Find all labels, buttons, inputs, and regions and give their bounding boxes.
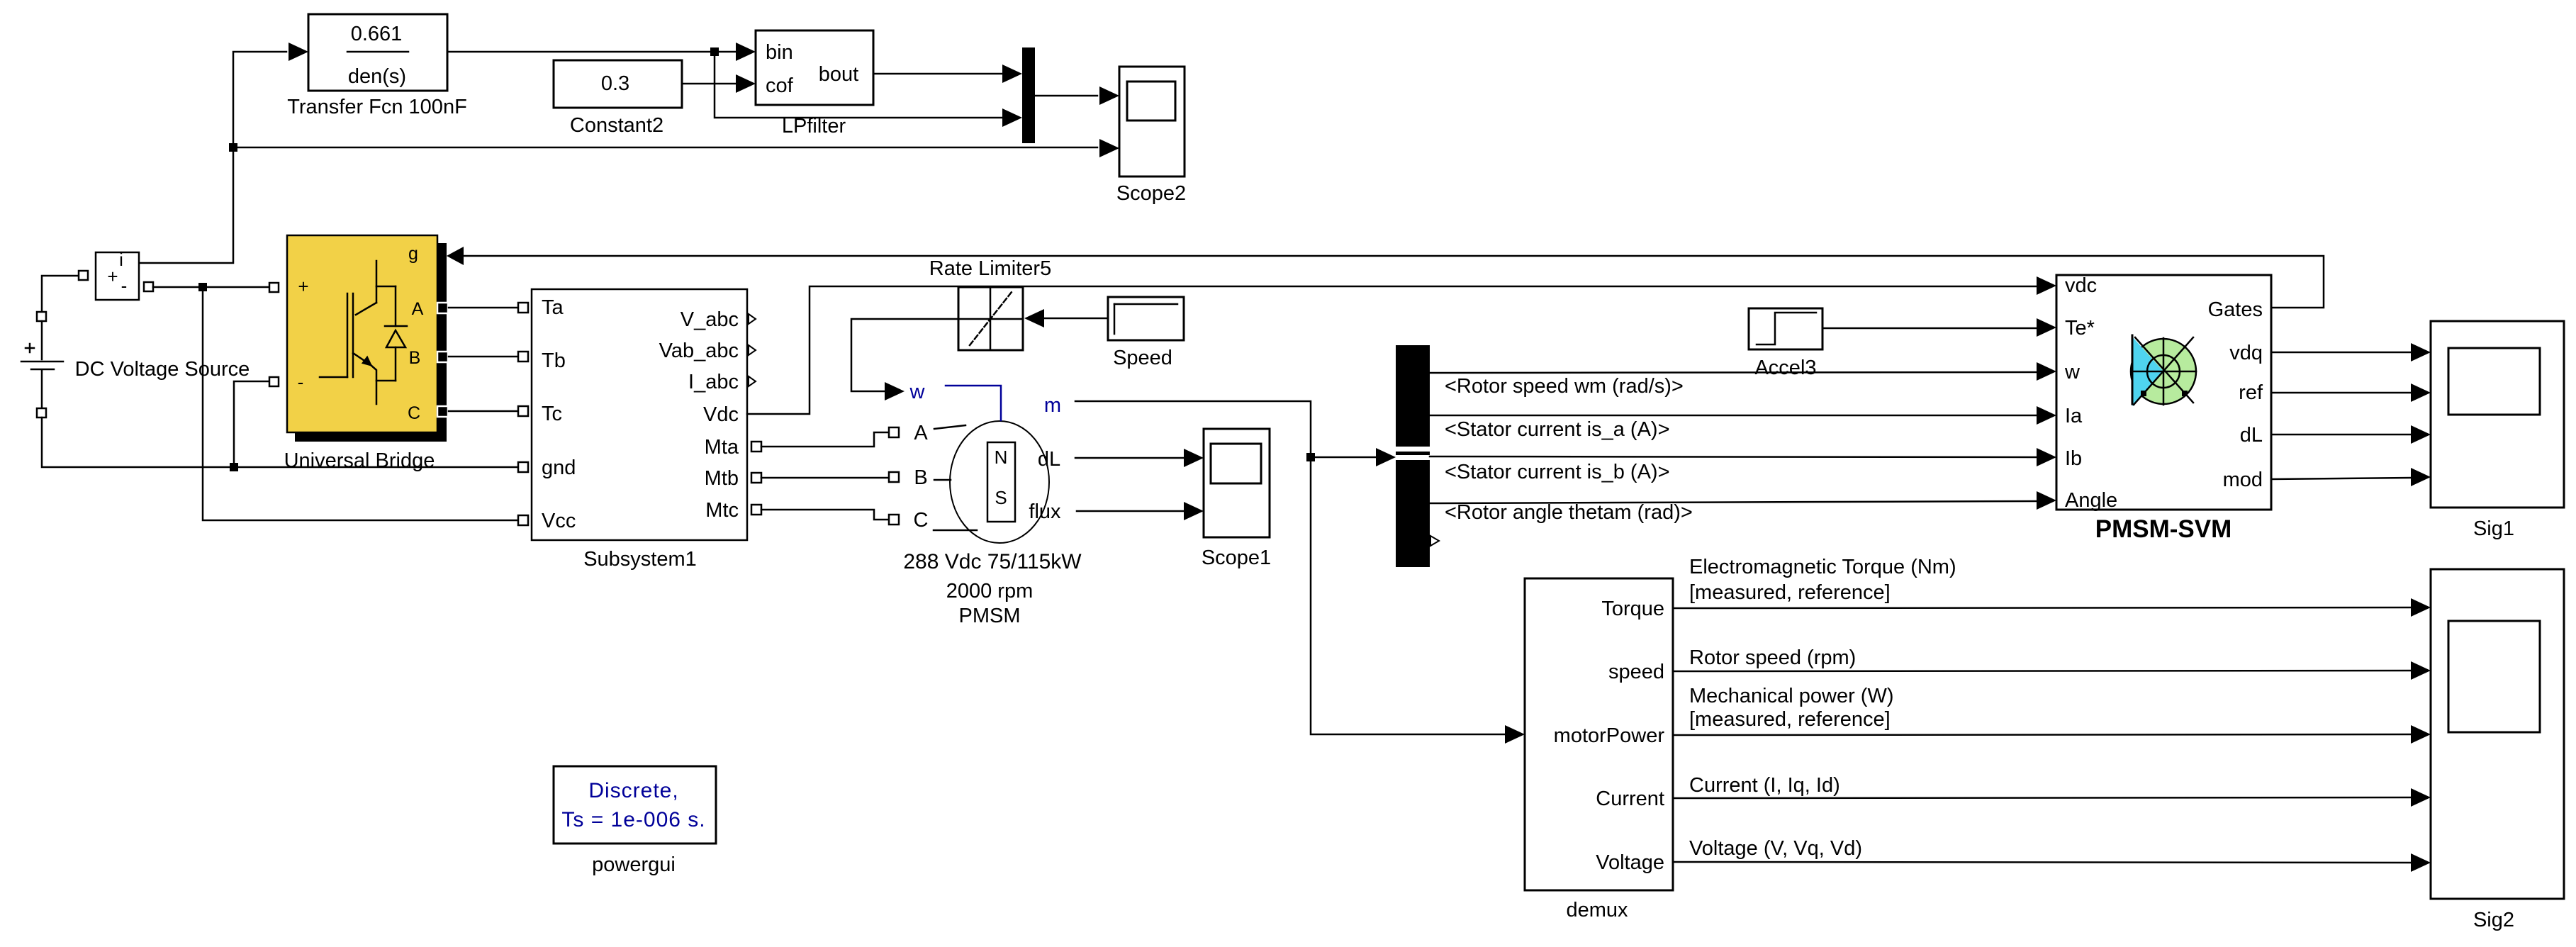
wire i-output from current sensor up to Transfer Fcn input [139,52,286,263]
svg-text:ref: ref [2239,381,2263,404]
arrow into Transfer Fcn [289,43,308,61]
svg-text:Voltage: Voltage [1596,851,1664,874]
wire mux output to Scope2 [1035,95,1097,97]
svg-text:demux: demux [1566,899,1628,921]
port square Subsystem1 Mtc output [751,505,761,515]
wire current sensor to bridge plus [153,286,269,288]
svg-text:Ib: Ib [2065,447,2082,470]
wire LPfilter bout to mux upper input [873,73,1002,75]
wire Rate Limiter5 output to motor w input [851,319,958,391]
svg-text:flux: flux [1029,500,1061,523]
junction on vertical feed at (329,208) [229,143,237,152]
arrow into Scope2 upper input [1099,86,1119,105]
block Current Measurement [96,249,139,300]
arrow into Sig2 in1 [2411,598,2431,617]
svg-text:gnd: gnd [542,456,576,479]
stub motor C [934,529,977,532]
arrow into bus selector [1376,448,1396,466]
block Rate Limiter5 [958,287,1023,350]
port square Subsystem1 Ta [518,303,528,313]
wire DC source plus to current sensor [42,276,79,317]
arrow into Scope1 input2 [1184,502,1204,520]
svg-text:[measured, reference]: [measured, reference] [1689,708,1891,731]
port square Subsystem1 Tb [518,352,528,362]
wire Mtb to motor B [761,477,889,479]
svg-text:B: B [409,348,421,368]
wire motor dL to Scope1 [1075,457,1184,459]
block Transfer Fcn 100nF [308,14,447,91]
svg-text:Speed: Speed [1113,347,1172,369]
wire demux Voltage to Sig2 [1673,862,2411,863]
wire gates feedback from PMSM-SVM to bridge g input [462,256,2324,308]
port square Subsystem1 Vcc [518,515,528,525]
arrow into mux lower input [1002,108,1022,127]
arrow into Sig2 in3 [2411,725,2431,744]
svg-text:0.3: 0.3 [601,72,629,95]
svg-text:i: i [119,249,123,270]
wire DC source minus to gnd rail [42,418,518,467]
svg-text:Scope1: Scope1 [1202,547,1271,569]
port square DC source plus [37,312,46,321]
svg-text:C: C [914,509,929,532]
arrow into Scope2 lower input [1099,139,1119,157]
svg-text:S: S [995,487,1007,508]
port chevron V_abc [749,314,756,324]
wire Transfer Fcn output to LPfilter bin [447,51,735,53]
arrow into motor w [885,382,905,400]
svg-text:2000 rpm: 2000 rpm [946,580,1034,603]
port chevron Vab_abc [749,345,756,355]
svg-text:Tb: Tb [542,349,566,372]
arrow into Sig1 in2 [2411,383,2431,402]
wire Speed to Rate Limiter5 input [1044,318,1108,320]
svg-text:vdq: vdq [2229,342,2263,364]
arrow into PMSM-SVM Te* [2037,318,2056,337]
arrow into PMSM-SVM w [2037,362,2056,381]
svg-text:Mta: Mta [705,436,739,459]
arrow into Sig1 in3 [2411,425,2431,444]
svg-text:<Rotor speed wm (rad/s)>: <Rotor speed wm (rad/s)> [1445,375,1684,398]
svg-text:-: - [298,371,304,393]
block powergui [554,766,716,844]
svg-text:288 Vdc 75/115kW: 288 Vdc 75/115kW [903,550,1082,573]
svg-text:powergui: powergui [592,853,676,876]
block demux [1525,578,1673,890]
wire bridge minus down to gnd rail [234,381,269,467]
wire motor m output to bus selector and demux [1075,401,1505,734]
svg-text:Transfer Fcn 100nF: Transfer Fcn 100nF [287,96,467,118]
junction at (286,405) [198,283,207,291]
port square motor A [889,427,899,437]
svg-text:0.661: 0.661 [351,23,403,45]
svg-text:vdc: vdc [2065,274,2097,297]
svg-text:bout: bout [819,63,858,86]
wire Accel3 to PMSM-SVM Te* [1822,327,2037,330]
svg-text:<Rotor angle thetam (rad)>: <Rotor angle thetam (rad)> [1445,501,1693,524]
port square bridge plus [269,283,279,292]
svg-text:Sig1: Sig1 [2473,517,2514,540]
block Universal Bridge shadow [295,243,447,442]
port square Subsystem1 gnd [518,462,528,472]
block Universal Bridge [287,235,437,432]
wire Mta to motor A [761,432,889,447]
wire demux Torque to Sig2 [1673,607,2411,608]
wire long feed y=208 from junction to Scope2 lower input [233,147,1097,149]
svg-text:Mtc: Mtc [705,499,739,522]
svg-text:-: - [121,275,128,296]
arrow into Rate Limiter5 (pointing left) [1024,309,1044,327]
port chevron bus selector bottom [1430,536,1439,546]
svg-text:Vab_abc: Vab_abc [659,340,739,362]
svg-text:w: w [909,381,926,403]
svg-text:Rate Limiter5: Rate Limiter5 [929,257,1051,280]
svg-text:+: + [107,266,118,287]
wire demux Current to Sig2 [1673,797,2411,798]
svg-text:DC Voltage Source: DC Voltage Source [75,358,250,381]
svg-text:Subsystem1: Subsystem1 [583,548,697,571]
svg-text:+: + [298,276,308,297]
scope Sig1 [2431,321,2564,508]
block Accel3 [1749,308,1822,349]
stub motor A [934,425,965,429]
port square DC source minus [37,408,46,418]
wire Vdc output to PMSM-SVM vdc input [747,286,2037,414]
block PMSM-SVM [2056,274,2271,512]
wire demux motorPower to Sig2 [1673,734,2411,735]
arrow into PMSM-SVM Angle [2037,491,2056,510]
svg-text:Universal Bridge: Universal Bridge [284,449,435,472]
svg-text:Current (I, Iq, Id): Current (I, Iq, Id) [1689,774,1840,797]
svg-text:den(s): den(s) [348,65,406,88]
svg-text:g: g [408,244,418,264]
port square bridge minus [269,377,279,386]
svg-text:Torque: Torque [1601,598,1664,620]
svg-text:Scope2: Scope2 [1116,182,1186,205]
arrow into PMSM-SVM Ib [2037,448,2056,466]
arrow into Sig2 in4 [2411,788,2431,807]
arrow into Sig1 in1 [2411,343,2431,362]
svg-text:motorPower: motorPower [1554,724,1665,747]
wire Mtc to motor C [761,510,889,520]
arrow into PMSM-SVM vdc [2037,276,2056,295]
svg-text:dL: dL [2240,424,2263,447]
arrow into mux upper input [1002,65,1022,83]
port square motor C [889,515,899,525]
svg-text:Tc: Tc [542,403,562,425]
svg-text:C: C [408,403,420,423]
arrow into PMSM-SVM Ia [2037,406,2056,425]
svg-text:LPfilter: LPfilter [782,115,846,138]
port square bridge A output [437,303,448,313]
wire bus out3 to PMSM-SVM Ib [1430,456,2037,457]
svg-text:Vdc: Vdc [703,403,739,426]
arrow into Scope1 input1 [1184,449,1204,467]
svg-text:Accel3: Accel3 [1754,357,1816,379]
scope Scope1 [1204,429,1270,537]
scope Sig2 [2431,569,2564,899]
port square current sensor left [79,271,88,280]
block LPfilter [756,30,873,105]
svg-text:[measured, reference]: [measured, reference] [1689,581,1891,604]
DC Voltage Source battery [21,321,63,408]
svg-text:w: w [2064,361,2081,383]
svg-text:Gates: Gates [2208,298,2263,321]
wire PMSM-SVM dL to Sig1 [2271,434,2411,436]
svg-text:Discrete,: Discrete, [588,779,678,802]
svg-text:Electromagnetic Torque (Nm): Electromagnetic Torque (Nm) [1689,556,1956,578]
arrow into Sig2 in5 [2411,853,2431,872]
mux Mux1 [1022,47,1035,143]
port square Subsystem1 Mtb output [751,473,761,483]
svg-text:A: A [412,299,424,319]
svg-text:cof: cof [766,74,794,97]
svg-text:speed: speed [1608,661,1664,683]
wire bridge B to Subsystem1 Tb [449,356,518,358]
icon PMSM-SVM space vector [2131,335,2196,406]
wire motor w port (navy) [946,386,1001,420]
junction m wire at (1849,645) [1306,453,1315,461]
svg-text:PMSM-SVM: PMSM-SVM [2095,515,2232,543]
arrow into demux [1505,725,1525,744]
arrow into bridge g input [447,247,464,265]
svg-text:Mechanical power (W): Mechanical power (W) [1689,685,1893,707]
stub motor B [934,479,951,481]
svg-text:Te*: Te* [2065,317,2095,340]
svg-text:Sig2: Sig2 [2473,909,2514,931]
wire PMSM-SVM ref to Sig1 [2271,392,2411,394]
port chevron I_abc [749,376,756,386]
wire Constant2 to LPfilter cof [682,83,735,85]
svg-text:Current: Current [1596,788,1664,810]
svg-text:Vcc: Vcc [542,510,576,532]
icon Universal Bridge IGBT/diode [320,261,407,404]
arrow into Sig1 in4 [2411,468,2431,486]
svg-text:<Stator current is_b (A)>: <Stator current is_b (A)> [1445,461,1670,483]
wire PMSM-SVM mod to Sig1 [2271,478,2411,479]
svg-text:I_abc: I_abc [688,371,739,393]
port square bridge B output [437,352,448,362]
svg-text:Ta: Ta [542,296,564,319]
svg-text:Voltage (V, Vq, Vd): Voltage (V, Vq, Vd) [1689,837,1862,860]
block Speed [1108,297,1184,340]
wire bus out4 to PMSM-SVM Angle [1430,501,2037,503]
wire bridge A to Subsystem1 Ta [449,307,518,309]
svg-text:Ts = 1e-006 s.: Ts = 1e-006 s. [561,808,705,831]
arrow into LPfilter bin [736,43,756,61]
port square motor B [889,472,899,482]
svg-text:dL: dL [1038,448,1060,471]
wire demux speed to Sig2 [1673,671,2411,671]
svg-text:Angle: Angle [2065,489,2117,512]
svg-text:B: B [914,466,927,489]
svg-text:PMSM: PMSM [959,605,1021,627]
svg-text:Constant2: Constant2 [570,114,663,137]
svg-text:Ia: Ia [2065,405,2083,427]
port square Subsystem1 Tc [518,406,528,416]
port square bridge C output [437,406,448,417]
block Constant2 [554,60,682,108]
svg-text:Mtb: Mtb [705,467,739,490]
arrow into Sig2 in2 [2411,661,2431,680]
wire motor flux to Scope1 [1077,510,1184,512]
wire bridge C to Subsystem1 Tc [449,410,518,413]
wire bus out1 to PMSM-SVM w [1430,372,2037,373]
svg-text:mod: mod [2223,469,2263,491]
junction gnd rail at (330,659) [230,463,238,471]
svg-text:V_abc: V_abc [681,308,739,331]
svg-text:<Stator current is_a (A)>: <Stator current is_a (A)> [1445,418,1670,441]
arrow into LPfilter cof [736,74,756,93]
block Subsystem1 [532,289,747,540]
wire branch to mux lower input [715,52,1002,118]
svg-text:bin: bin [766,41,793,64]
bus selector [1396,345,1430,567]
svg-text:m: m [1044,394,1061,417]
motor PMSM circle [950,421,1049,543]
svg-text:N: N [995,447,1008,468]
port square current sensor right [144,282,153,291]
wire bus out2 to PMSM-SVM Ia [1430,415,2037,417]
svg-text:Rotor speed (rpm): Rotor speed (rpm) [1689,646,1856,669]
svg-text:A: A [914,422,928,444]
port square Subsystem1 Mta output [751,442,761,452]
wire PMSM-SVM vdq to Sig1 [2271,352,2411,354]
scope Scope2 [1119,67,1185,176]
junction after Transfer Fcn at (1008,73) [710,47,719,56]
wire junction down to Vcc rail [203,287,518,520]
